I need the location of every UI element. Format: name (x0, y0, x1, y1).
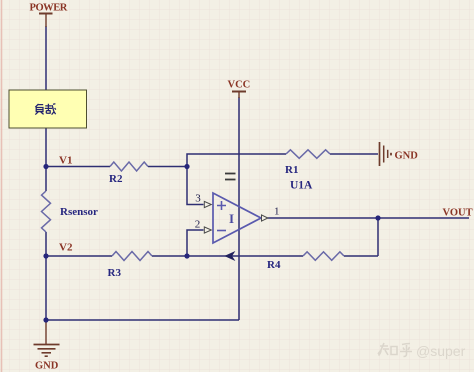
svg-text:VCC: VCC (228, 80, 251, 91)
svg-text:R2: R2 (109, 173, 123, 185)
svg-text:VOUT: VOUT (443, 208, 473, 219)
svg-text:I: I (229, 211, 234, 226)
svg-text:R4: R4 (267, 259, 281, 271)
svg-text:V2: V2 (59, 242, 73, 254)
svg-text:3: 3 (195, 192, 201, 204)
svg-text:POWER: POWER (30, 3, 68, 14)
svg-text:GND: GND (35, 361, 59, 372)
svg-text:@super: @super (416, 343, 466, 359)
svg-text:1: 1 (274, 205, 280, 217)
svg-text:R3: R3 (108, 267, 122, 279)
svg-text:GND: GND (395, 151, 419, 162)
svg-text:V1: V1 (59, 155, 72, 167)
svg-text:R1: R1 (285, 164, 298, 176)
svg-text:Rsensor: Rsensor (60, 206, 98, 218)
svg-text:2: 2 (195, 219, 201, 231)
svg-text:U1A: U1A (290, 180, 313, 192)
